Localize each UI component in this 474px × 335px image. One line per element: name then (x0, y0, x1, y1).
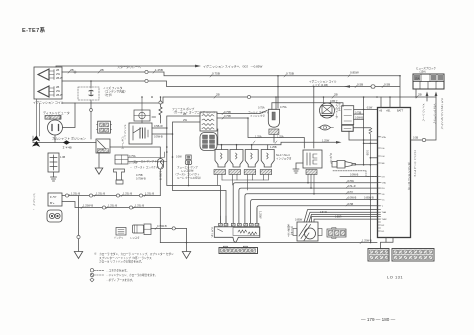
connector symbol on bus C (371, 85, 375, 88)
svg-text:No.1～No.4: No.1～No.4 (276, 153, 290, 157)
svg-text:バッテリへ ↓: バッテリへ ↓ (32, 192, 35, 210)
svg-text:2B: 2B (70, 68, 74, 72)
ECU left pin stubs (378, 137, 381, 231)
svg-text:（ブースト コンパクト: （ブースト コンパクト (174, 172, 200, 176)
junction dot (313, 86, 315, 88)
ECU box (378, 108, 411, 238)
svg-text:1.25L-B: 1.25L-B (108, 204, 117, 208)
wire cam switch to S capsule (110, 147, 160, 159)
fan wire T (257, 206, 378, 224)
wires vacuum switch to right (128, 152, 167, 162)
diag strip teeth (221, 249, 256, 252)
svg-text:+B: +B (379, 110, 382, 113)
chassis ground throttle (293, 169, 299, 173)
svg-text:0.75B: 0.75B (212, 72, 220, 76)
label fuse box (416, 66, 436, 74)
svg-text:0.5W: 0.5W (367, 106, 373, 109)
svg-text:ディストリビュータ: ディストリビュータ (43, 110, 70, 115)
wire labels fuel pump relay row (130, 159, 165, 181)
connector block B (392, 249, 434, 262)
O2 sensor (332, 161, 356, 169)
svg-text:イグニッション スイッチへ （IG） ―0.85W: イグニッション スイッチへ （IG） ―0.85W (203, 64, 262, 69)
fuse box dark cells (414, 75, 443, 81)
svg-text:0.5Y: 0.5Y (348, 191, 353, 194)
noise filter capacitor dashed box (78, 87, 99, 100)
svg-text:1.25B: 1.25B (270, 146, 277, 149)
svg-text:フューエル ポンプ: フューエル ポンプ (172, 107, 194, 111)
main relay grid component (134, 110, 150, 121)
svg-text:IGf: IGf (382, 156, 385, 158)
cold start injector (268, 109, 279, 134)
verticals from relay area down (167, 128, 226, 223)
svg-text:2B: 2B (334, 93, 338, 97)
diagnosis connector strip (219, 246, 258, 253)
svg-text:VTA: VTA (382, 182, 387, 185)
svg-text:STA: STA (382, 136, 387, 139)
svg-text:メインリレー: メインリレー (123, 124, 126, 140)
svg-text:1.25A: 1.25A (277, 136, 284, 139)
junction dot relay out (247, 117, 249, 119)
circuit opening relay box (200, 112, 217, 131)
legend row 2 (90, 273, 104, 276)
wire fuel pump return (62, 202, 160, 208)
wire STA from timer switch (349, 109, 378, 143)
svg-text:1.25A: 1.25A (255, 136, 262, 139)
airflow meter feed drops (324, 97, 331, 104)
legend row 1 (90, 269, 104, 272)
ECU right pin IGt wire to check lamp (411, 96, 437, 141)
throttle position sensor box (303, 150, 322, 168)
svg-text:（センサ）: （センサ） (337, 100, 340, 113)
svg-text:スプリンター ハードトップ（5月）・ランクス: スプリンター ハードトップ（5月）・ランクス (99, 256, 152, 260)
injector No.2 (229, 150, 243, 175)
ignition coil terminal labels (56, 68, 63, 97)
svg-text:0.5W-B: 0.5W-B (350, 174, 359, 177)
connector circle on bus C (145, 79, 148, 82)
svg-text:（サーモ）: （サーモ） (290, 224, 293, 237)
junction dot (370, 199, 372, 201)
check connector bubble box (214, 227, 259, 243)
wires relay to cold start injector (217, 111, 304, 149)
svg-text:←（ブースト コンパクト）: ←（ブースト コンパクト） (130, 165, 161, 169)
connector circle (172, 227, 175, 230)
wire cylinder to bus (151, 228, 187, 242)
fuel pump motor (47, 210, 62, 222)
black diamond connector (63, 140, 70, 144)
ignition coil T1 (34, 67, 62, 99)
labels timer wires (355, 106, 373, 119)
svg-text:E-TE7系: E-TE7系 (22, 26, 46, 34)
svg-text:2B-W: 2B-W (56, 93, 63, 97)
water temp sensor box (293, 222, 322, 241)
throttle connector drops (308, 175, 314, 194)
connector circle on lamp wire (422, 138, 425, 141)
svg-text:0.85W: 0.85W (350, 71, 359, 75)
label circuit opening relay (172, 107, 216, 115)
svg-text:ルーム クールの場合）: ルーム クールの場合） (177, 176, 203, 180)
fuse box (413, 74, 444, 89)
connector block A (368, 249, 389, 262)
svg-text:0.5W: 0.5W (176, 156, 182, 159)
fan wire VS (245, 194, 378, 224)
vertical wire x278 from bus B down (277, 76, 279, 108)
svg-text:1.25L-B: 1.25L-B (123, 192, 132, 196)
labels under comps (114, 236, 140, 240)
injector No.3 (244, 150, 258, 175)
thermo sensor wires to ECU (304, 210, 378, 222)
svg-text:0.5B: 0.5B (348, 203, 353, 206)
svg-text:1.25B: 1.25B (155, 68, 163, 72)
wire resistor connector down (188, 165, 190, 186)
resistor chain x160 (159, 97, 162, 123)
ECU bottom exit wire (381, 238, 394, 249)
svg-text:0.85W: 0.85W (295, 219, 303, 222)
S capsule connector (158, 159, 164, 170)
svg-text:0.75W-B: 0.75W-B (157, 225, 167, 228)
svg-text:0.5BR: 0.5BR (335, 217, 342, 219)
wire to ground under check connector (53, 172, 55, 177)
ground triangle (open) under switch (95, 168, 103, 174)
arrow right on 1.25W line (336, 141, 342, 144)
label cold start injector (248, 106, 287, 118)
svg-text:レジスタ付: レジスタ付 (181, 169, 194, 173)
junction dots on injector bus (221, 144, 253, 146)
check connector teeth wires (220, 208, 257, 223)
svg-text:0.75B: 0.75B (224, 114, 231, 118)
svg-text:※ カローラ セダン、カローラ ハードトップ、スプリンター: ※ カローラ セダン、カローラ ハードトップ、スプリンター セダン (94, 252, 174, 256)
svg-text:エンジン ルーム ワイヤ: エンジン ルーム ワイヤ (413, 150, 416, 178)
legend row 3 (90, 278, 94, 282)
svg-text:0.75B: 0.75B (286, 72, 294, 76)
wire throttle to ground (296, 163, 303, 169)
main relay box (129, 123, 152, 144)
wire labels 1.25L-B (71, 192, 154, 196)
fan wire VC (251, 200, 378, 224)
round connector under relay (200, 133, 217, 151)
left drop x78 (78, 196, 80, 252)
svg-text:（セダ）: （セダ） (103, 93, 114, 97)
svg-text:インジェクタ: インジェクタ (250, 114, 265, 118)
svg-text:チェック: チェック (210, 226, 213, 238)
chassis ground under check connector (51, 177, 57, 181)
cam angle switch box (96, 139, 110, 153)
svg-text:メインリレーへ: メインリレーへ (422, 103, 425, 121)
wire bus C (y81 to y86.5) (62, 81, 400, 87)
3-cell connector right of temp sensor (327, 228, 346, 239)
capacitor C1 (89, 81, 93, 103)
ECU pin names (382, 136, 388, 233)
svg-text:（コンデンサ内蔵）: （コンデンサ内蔵） (103, 90, 127, 94)
svg-text:0.75B: 0.75B (355, 111, 362, 114)
svg-text:カムシャフト ポジション: カムシャフト ポジション (52, 136, 86, 141)
svg-text:0.75A: 0.75A (258, 107, 265, 110)
svg-text:IGt: IGt (382, 147, 385, 150)
wire 2B bus B (y72 to y76) (62, 72, 400, 76)
svg-text:THA: THA (382, 211, 387, 214)
svg-text:B↘: B↘ (50, 201, 55, 205)
svg-text:← フューエル ポンプ チェッコ: ← フューエル ポンプ チェッコ (130, 159, 165, 163)
sensor fan wire OX (340, 176, 378, 178)
svg-text:イグニッションへ: イグニッションへ (433, 102, 436, 124)
svg-text:1.25L-B: 1.25L-B (145, 192, 154, 196)
junction dots on bus (186, 242, 372, 244)
check connector tall box (48, 153, 59, 172)
svg-text:1.25L-B: 1.25L-B (96, 192, 105, 196)
injector No.4 (260, 150, 274, 175)
injector ground drops (218, 175, 269, 191)
wire IG switch (top) (56, 66, 195, 67)
svg-text:…コネクタを示す。: …コネクタを示す。 (106, 269, 129, 273)
svg-text:BATT: BATT (397, 110, 404, 113)
wire O2 signal to ECU (355, 164, 378, 166)
svg-text:0.5B: 0.5B (413, 137, 418, 140)
svg-text:２＊4B: ２＊4B (62, 146, 72, 150)
fan wire IDL (239, 188, 378, 223)
up arrow 2 head (435, 92, 438, 97)
connector circles on pump feed (65, 194, 142, 197)
svg-text:イグニッション コイル: イグニッション コイル (33, 100, 64, 105)
connector circle x78 (77, 235, 80, 238)
svg-text:0.75B: 0.75B (224, 110, 231, 114)
distributor pickup circle (48, 116, 63, 136)
ground drop from bus (186, 243, 188, 252)
connector circles on return (102, 206, 132, 209)
svg-text:0.75W-B: 0.75W-B (136, 178, 146, 181)
vertical cold start ground wire (369, 128, 372, 200)
vacuum switch connector (115, 155, 128, 164)
air flow meter circle (320, 103, 335, 118)
arrow left on bus C (344, 85, 350, 88)
svg-text:レジスタ: レジスタ (130, 236, 140, 240)
label fuel pump resistor block (174, 165, 203, 180)
wire fuse box to bus D (415, 89, 417, 97)
svg-text:2B: 2B (100, 68, 104, 72)
check connector teeth row (219, 223, 259, 226)
svg-text:LO 131: LO 131 (387, 275, 403, 280)
vertical wire x304 down to throttle sensor (313, 87, 315, 149)
shield ground arrows (black) (32, 136, 40, 148)
arrow to ignition switch (195, 65, 201, 68)
svg-text:チェックエンジンランプへ: チェックエンジンランプへ (440, 97, 443, 129)
ECU top pin labels (379, 110, 404, 113)
vacuum switch body (114, 169, 125, 184)
start injection time switch boxes (342, 106, 354, 132)
svg-text:2B: 2B (56, 68, 59, 72)
svg-text:0.5B: 0.5B (384, 83, 390, 87)
wire cold start to timer boxes (272, 97, 343, 142)
svg-text:2B: 2B (418, 93, 422, 97)
battery small comp (116, 228, 126, 236)
vertical wire x160 to bus (159, 208, 161, 243)
small circle under diamond (318, 127, 334, 129)
svg-text:0.5W: 0.5W (348, 180, 354, 183)
svg-text:1.25L-B: 1.25L-B (135, 204, 144, 208)
ground bus 1.25W-B (160, 242, 377, 244)
wire distributor to diode (33, 135, 96, 143)
svg-text:（サーキット オープニング リレー）: （サーキット オープニング リレー） (172, 111, 216, 115)
svg-text:フューエル ポンプ: フューエル ポンプ (177, 165, 198, 169)
vertical 0.5B wire (363, 97, 365, 165)
svg-text:1.25W-B: 1.25W-B (83, 204, 93, 208)
label ignition coil noise note (309, 80, 337, 88)
wire labels small (320, 212, 342, 219)
svg-text:バッテリ: バッテリ (114, 236, 124, 240)
svg-text:2B: 2B (216, 93, 220, 97)
wire labels return (83, 204, 144, 208)
svg-text:0.5B: 0.5B (357, 83, 363, 87)
4-square connector block (97, 121, 112, 133)
resistor squiggles in bubble (218, 229, 257, 235)
connector under throttle sensor (306, 170, 317, 175)
junction dots bus C (90, 80, 92, 82)
vertical wire S capsule down (159, 169, 161, 196)
wire switch to ground (98, 153, 100, 168)
svg-text:（エンジン コントロール）: （エンジン コントロール） (407, 160, 410, 192)
wire capacitor to cam switch (90, 103, 92, 139)
svg-text:F↗P: F↗P (50, 195, 56, 199)
connector circle on bus D (247, 95, 250, 98)
svg-text:1.25L-B: 1.25L-B (71, 192, 80, 196)
label injectors (276, 153, 292, 161)
svg-text:OX: OX (382, 177, 386, 179)
sub sensor cylinder (133, 224, 152, 235)
injector No.1 (214, 150, 228, 175)
wires main relay to circuit open relay (152, 116, 200, 134)
svg-text:0.85W-B: 0.85W-B (364, 197, 374, 200)
inner box in bubble (233, 228, 260, 236)
svg-text:0.5W-B: 0.5W-B (154, 135, 163, 139)
fuel pump relay box F/P (48, 193, 62, 206)
up arrow 1 (426, 96, 428, 102)
distributor connector (45, 116, 61, 120)
svg-text:S+4B: S+4B (98, 149, 105, 152)
O2 shielded dashed wire (333, 171, 378, 177)
svg-text:インジェクタ: インジェクタ (276, 157, 292, 161)
junction dots O2 area (363, 157, 371, 166)
junction dots x363 x370 (363, 139, 371, 144)
svg-text:+B1: +B1 (386, 110, 391, 113)
label noise filter (103, 86, 127, 97)
junction dot (188, 185, 190, 187)
svg-text:— 179 — 180 —: — 179 — 180 — (361, 317, 396, 322)
svg-text:0.5Y-B: 0.5Y-B (320, 212, 327, 214)
connector circle on bus B (74, 70, 148, 73)
block B cells (394, 250, 433, 260)
ground triangle left (74, 252, 82, 259)
svg-text:ヒューズブロック: ヒューズブロック (416, 66, 436, 70)
svg-text:1.25W: 1.25W (322, 139, 330, 142)
svg-text:スタータリレーへ: スタータリレーへ (117, 64, 141, 69)
wire bus D (y97) (62, 97, 436, 103)
wire fuel pump feed (1.25L-B) (62, 195, 160, 197)
svg-text:0.75A: 0.75A (280, 106, 287, 109)
svg-text:2W: 2W (183, 118, 187, 122)
wire from vertical to ECU pin (370, 157, 377, 159)
svg-text:カローラ リフトバックの場合を示す。: カローラ リフトバックの場合を示す。 (99, 260, 144, 264)
svg-text:2W: 2W (56, 89, 60, 93)
svg-text:コールド スタート: コールド スタート (248, 110, 269, 114)
block A cells (370, 250, 389, 260)
ECU top feed verticals (381, 76, 400, 108)
svg-text:VC: VC (382, 200, 385, 202)
svg-text:0.5W-B: 0.5W-B (355, 117, 363, 120)
svg-text:イグニッション コイル: イグニッション コイル (309, 80, 337, 84)
svg-text:…ボディ アースを示す。: …ボディ アースを示す。 (106, 278, 135, 282)
vertical 0.85W-B wire down (370, 200, 372, 243)
svg-text:0.5W-B: 0.5W-B (348, 197, 357, 200)
svg-text:…ジャンクション、カローラの場合を示す。: …ジャンクション、カローラの場合を示す。 (106, 273, 157, 277)
fan wire VTA (233, 183, 377, 224)
left shield wires (33, 99, 40, 143)
svg-text:NE: NE (382, 163, 386, 165)
svg-text:15A: 15A (415, 77, 420, 81)
fan wire labels (348, 180, 374, 206)
wire tick marks (68, 71, 418, 244)
svg-text:2B-W: 2B-W (56, 76, 63, 80)
junction dots relay area (166, 127, 173, 158)
svg-text:0.5B-W: 0.5B-W (154, 124, 163, 128)
svg-text:ノイズ フィルタ: ノイズ フィルタ (103, 86, 123, 90)
svg-text:0.5L-R: 0.5L-R (348, 185, 356, 188)
wire distributor right (63, 103, 76, 128)
svg-text:2W: 2W (56, 72, 60, 76)
svg-text:（15A）: （15A） (418, 70, 427, 74)
fuel pump resistor connector (185, 155, 191, 165)
legend note (94, 252, 174, 264)
diamond connector under airflow (320, 125, 331, 130)
svg-text:1.0B: 1.0B (60, 156, 65, 159)
junction dots on bus D (151, 75, 401, 98)
wire bus D to grid comp (141, 97, 143, 123)
connector circle on that wire (90, 109, 93, 112)
injector feed bus (218, 142, 336, 149)
ground triangle center (182, 252, 190, 259)
svg-text:2B: 2B (56, 85, 59, 89)
